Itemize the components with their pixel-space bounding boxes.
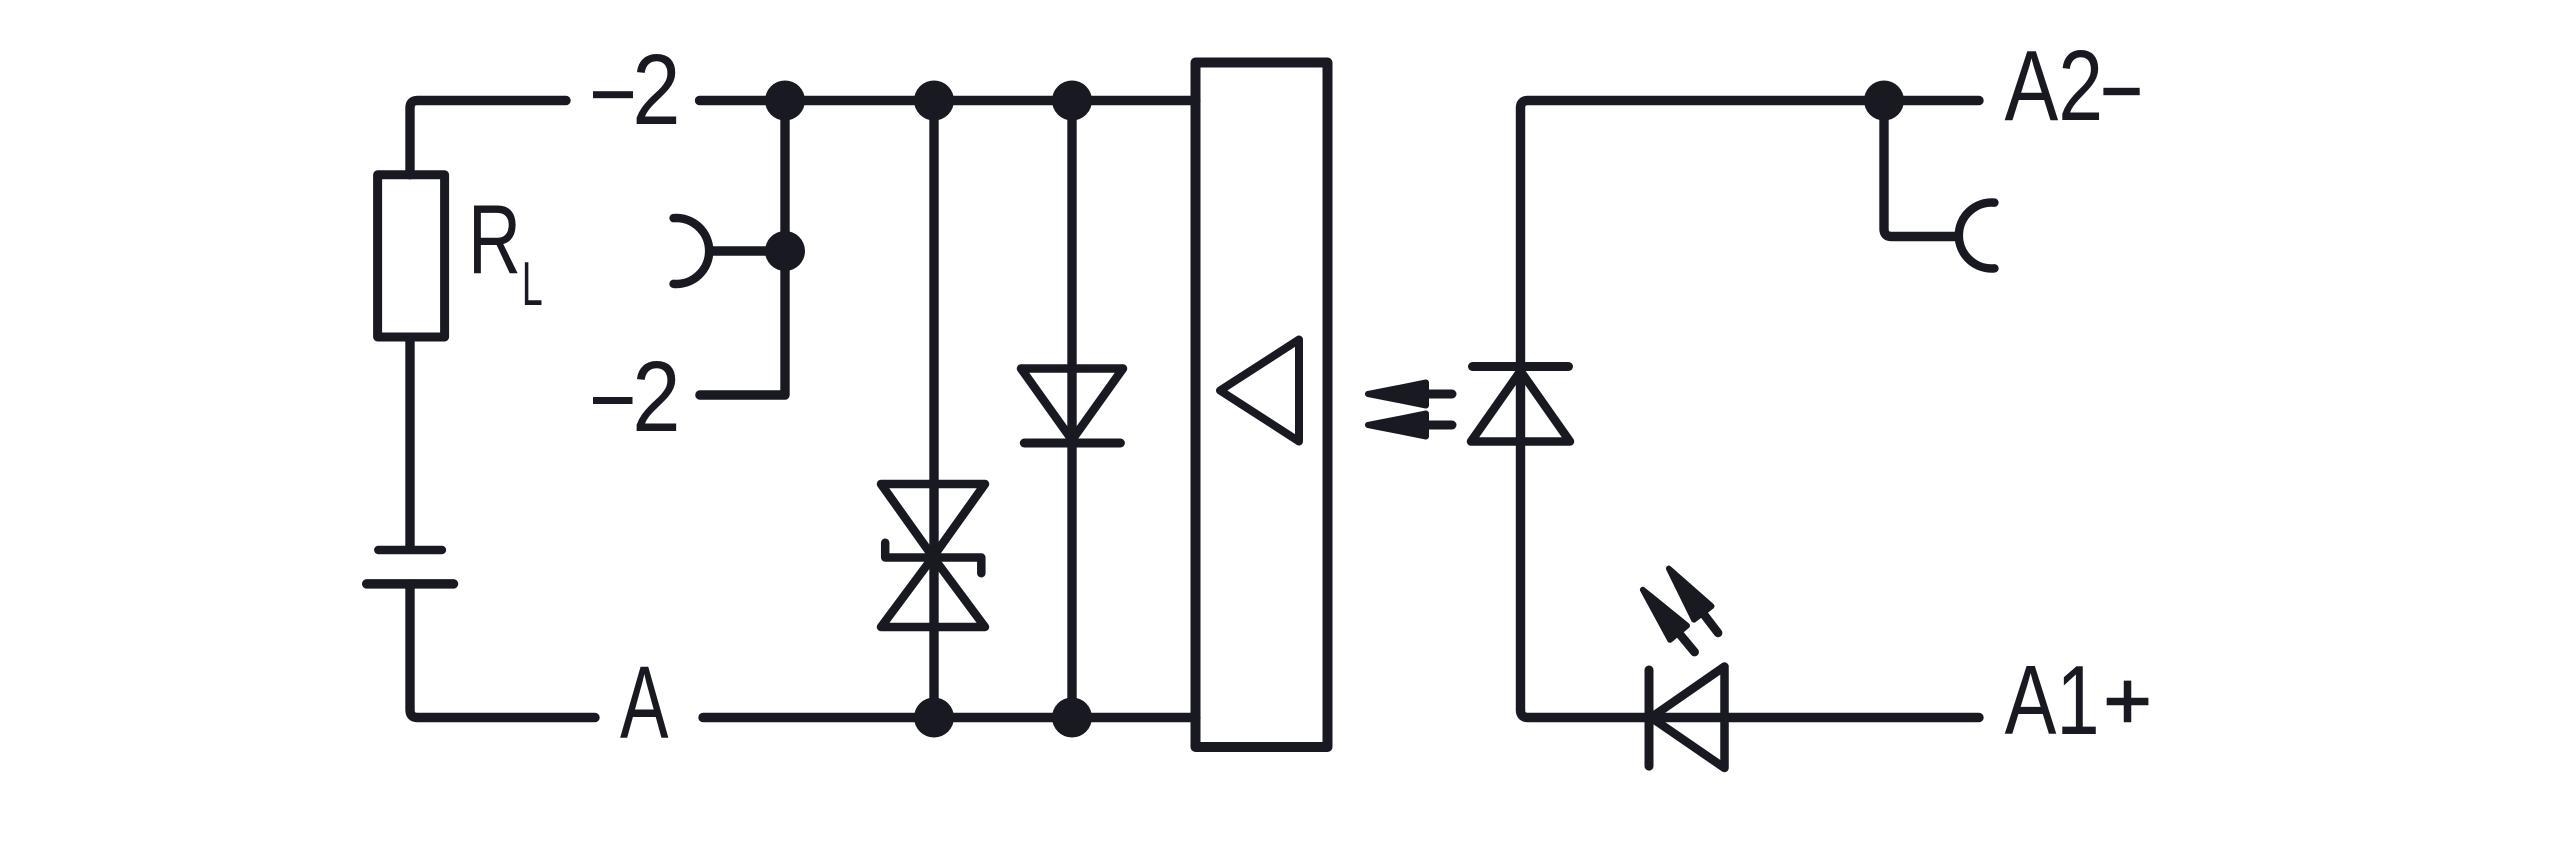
wire battery to label A xyxy=(410,584,595,718)
svg-text:L: L xyxy=(522,250,543,319)
suppressor diode D1 zener bar xyxy=(885,543,981,573)
junction dot top right branch xyxy=(1052,81,1092,121)
wire A2- junction to socket xyxy=(1884,101,1956,237)
suppressor diode branch wire xyxy=(929,101,938,718)
resistor RL xyxy=(378,175,445,337)
wire bottom A to optocoupler xyxy=(703,713,1196,722)
label -2 lower minus xyxy=(593,397,633,404)
wire right vertical xyxy=(1516,108,1525,710)
wire top right to A2- xyxy=(1521,101,1980,109)
battery cell plate short xyxy=(378,546,442,555)
svg-text:A2: A2 xyxy=(2005,30,2104,142)
wire top -2 to optocoupler xyxy=(700,96,1197,105)
status arrow left xyxy=(1634,583,1703,660)
socket contact left xyxy=(674,218,710,284)
svg-text:A: A xyxy=(620,645,669,760)
light arrow lower xyxy=(1368,414,1452,437)
svg-text:R: R xyxy=(468,184,521,294)
diode D2 triangle xyxy=(1021,369,1123,441)
LED D3 cathode bar xyxy=(1473,362,1569,371)
wire socket stub xyxy=(711,246,785,255)
wire top-left corner xyxy=(410,101,566,175)
LED D3 triangle xyxy=(1471,371,1570,442)
optocoupler body U1 xyxy=(1196,63,1328,748)
wire resistor to battery xyxy=(405,337,414,546)
junction dot socket xyxy=(765,231,805,271)
wire left vertical with lower -2 branch xyxy=(700,101,785,396)
status LED D4 triangle xyxy=(1651,667,1725,769)
svg-text:2: 2 xyxy=(632,34,680,146)
junction dot A2- xyxy=(1864,81,1904,121)
status arrow right xyxy=(1660,562,1727,640)
junction dot bottom middle xyxy=(914,698,954,738)
diode D2 cathode bar xyxy=(1024,439,1120,448)
junction dot top middle xyxy=(914,81,954,121)
junction dot bottom right branch xyxy=(1052,698,1092,738)
label -2 top minus xyxy=(593,91,633,98)
diode branch wire xyxy=(1067,101,1076,718)
svg-text:A1: A1 xyxy=(2005,645,2100,755)
battery cell plate long xyxy=(367,579,454,589)
suppressor diode D1 bottom triangle xyxy=(881,557,985,627)
light arrow upper xyxy=(1368,383,1452,406)
svg-text:2: 2 xyxy=(632,341,680,453)
socket contact right xyxy=(1959,203,1995,269)
suppressor diode D1 top triangle xyxy=(881,484,985,557)
status LED D4 cathode bar xyxy=(1645,670,1654,766)
optocoupler receiver triangle xyxy=(1220,340,1299,442)
junction dot top left xyxy=(765,81,805,121)
wire bottom right to A1+ xyxy=(1521,710,1980,718)
